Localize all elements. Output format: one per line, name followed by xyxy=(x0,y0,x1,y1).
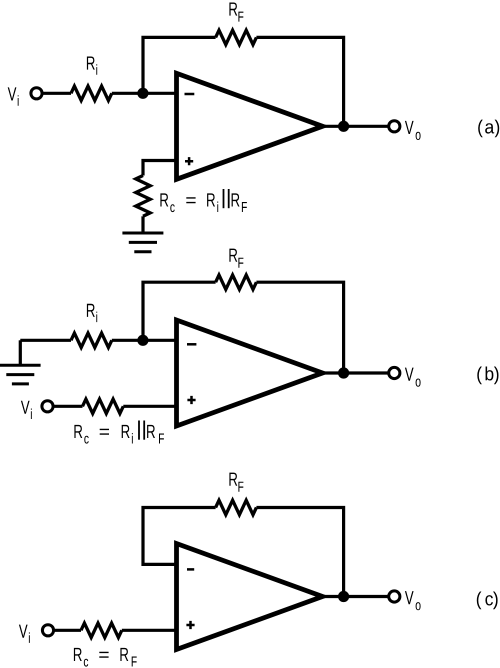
label Vo (a) xyxy=(405,121,421,140)
wire output (a) xyxy=(323,125,390,128)
op-amp U3 (c) xyxy=(177,544,323,650)
terminal Vi (a) xyxy=(31,88,42,99)
ground (a) xyxy=(122,233,163,252)
resistor Ri (a) xyxy=(71,86,112,100)
wire Vi to Rc (c) xyxy=(54,629,81,632)
terminal Vo (c) xyxy=(389,591,400,602)
node output junction (b) xyxy=(338,367,349,378)
wire Rc to noninverting input (c) xyxy=(122,629,177,632)
resistor RF feedback (b) xyxy=(216,275,257,289)
node output junction (a) xyxy=(338,121,349,132)
op-amp U2 (b) xyxy=(177,320,323,426)
label Ri (a) xyxy=(87,57,97,75)
label Rc = Ri||RF (a) xyxy=(160,193,218,212)
resistor RF feedback (c) xyxy=(216,500,257,514)
minus symbol inverting input (c) xyxy=(187,568,194,571)
wire output (c) xyxy=(323,595,390,598)
wire feedback across and down to output (b) xyxy=(256,282,343,373)
label Vo (c) xyxy=(405,591,421,610)
resistor Rc (b) xyxy=(83,399,124,413)
wire Rc to ground (a) xyxy=(141,216,144,233)
node output junction (c) xyxy=(338,591,349,602)
terminal Vo (b) xyxy=(389,367,400,378)
label Vi (b) xyxy=(21,401,32,419)
node junction inverting input (b) xyxy=(137,335,148,346)
terminal Vi (b) xyxy=(42,401,53,412)
wire Ri to op-amp inverting input (b) xyxy=(112,339,177,342)
resistor RF feedback (a) xyxy=(216,30,257,44)
label letter (c) xyxy=(477,592,498,610)
resistor Rc (a) xyxy=(136,176,150,217)
wire noninverting input to Rc (a) xyxy=(143,161,177,176)
plus symbol noninverting input (a) xyxy=(185,157,193,165)
ground (b) xyxy=(0,365,41,384)
wire feedback across and down to output (a) xyxy=(256,37,343,126)
label Rc = RF (c) xyxy=(74,648,137,667)
wire Rc to noninverting input (b) xyxy=(123,405,176,408)
label letter (b) xyxy=(477,367,498,385)
terminal Vi (c) xyxy=(42,625,53,636)
wire output (b) xyxy=(323,371,390,374)
minus symbol inverting input (a) xyxy=(185,93,195,96)
wire feedback up and across (a) xyxy=(143,37,216,93)
wire ground to Ri (b) xyxy=(20,339,71,342)
label RF (a) xyxy=(229,3,243,22)
node junction inverting input (a) xyxy=(137,88,148,99)
label RF (b) xyxy=(229,249,243,268)
label RF (c) xyxy=(229,473,243,492)
label Vo (b) xyxy=(405,368,421,387)
plus symbol noninverting input (c) xyxy=(186,621,194,629)
wire Vi to Rc (b) xyxy=(54,405,83,408)
resistor Ri (b) xyxy=(71,333,112,347)
wire Vi to Ri (a) xyxy=(43,92,71,95)
wire feedback up and across (b) xyxy=(143,282,216,340)
label Ri (b) xyxy=(87,304,97,322)
wire ground stub (b) xyxy=(19,340,22,365)
label letter (a) xyxy=(478,120,499,138)
wire feedback across and down to output (c) xyxy=(256,508,343,597)
wire feedback stub up and across (c) xyxy=(143,508,216,565)
terminal Vo (a) xyxy=(389,121,400,132)
minus symbol inverting input (b) xyxy=(187,343,196,346)
wire Ri to op-amp inverting input (a) xyxy=(112,92,177,95)
plus symbol noninverting input (b) xyxy=(187,396,195,404)
label Vi (a) xyxy=(8,87,19,105)
op-amp U1 (a) xyxy=(177,73,323,179)
resistor Rc (c) xyxy=(81,623,122,637)
label Rc = Ri||RF (b) xyxy=(74,425,132,444)
label Vi (c) xyxy=(19,625,30,643)
